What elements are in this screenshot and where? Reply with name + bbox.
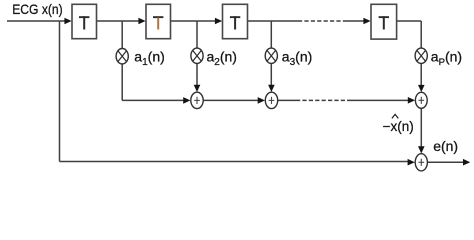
svg-text:ECG x(n): ECG x(n) <box>12 1 63 17</box>
svg-text:−x(n): −x(n) <box>383 119 414 134</box>
svg-text:e(n): e(n) <box>433 138 458 154</box>
